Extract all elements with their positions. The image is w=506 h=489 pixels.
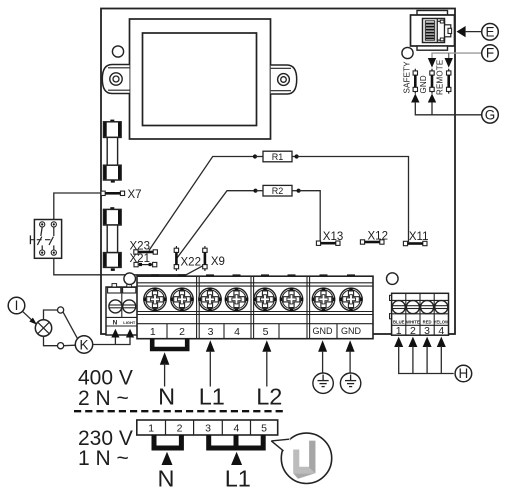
- mounting hole below RJ45: [402, 47, 413, 58]
- 230V terminal strip: [137, 420, 278, 435]
- arrow up to LIGHT terminal: [126, 329, 134, 338]
- wire: [292, 190, 299, 192]
- screw 3 red: [421, 301, 434, 314]
- svg-text:E: E: [485, 24, 494, 39]
- arrow down to REMOTE pin: [445, 58, 453, 68]
- svg-text:L1: L1: [199, 383, 225, 409]
- wire: [255, 156, 263, 158]
- wire: [292, 156, 297, 158]
- svg-text:F: F: [486, 46, 494, 61]
- arrow N 400V: [160, 352, 170, 365]
- wire lamp top to switch: [44, 310, 58, 320]
- svg-text:YELOW: YELOW: [434, 319, 449, 324]
- arrow to E: [457, 26, 466, 37]
- connector X21: [134, 262, 157, 266]
- connector X9: [203, 246, 207, 271]
- wire X7 to external box: [54, 193, 101, 220]
- svg-text:5: 5: [261, 423, 267, 435]
- svg-text:RED: RED: [423, 319, 432, 324]
- connector X11: [403, 241, 427, 245]
- arrow N 230V: [162, 452, 173, 465]
- mounting hole top-left: [112, 46, 123, 57]
- svg-text:SAFETY: SAFETY: [402, 61, 411, 94]
- svg-text:3: 3: [424, 325, 430, 337]
- svg-text:4: 4: [234, 326, 240, 338]
- connector X22: [174, 246, 178, 271]
- fuse F2: [104, 207, 122, 271]
- label H: [455, 365, 472, 382]
- svg-text:2: 2: [410, 325, 416, 337]
- connector X12: [360, 240, 384, 244]
- pin header GND: [430, 69, 434, 94]
- svg-text:1: 1: [150, 326, 156, 338]
- screw terminal 3: [198, 288, 221, 311]
- junction dot R2 left: [253, 189, 257, 193]
- connector X23: [134, 250, 158, 254]
- svg-text:2 N ~: 2 N ~: [78, 387, 129, 410]
- junction dot R2 right: [297, 189, 301, 193]
- left tab screw: [110, 73, 122, 85]
- arrows H group: [394, 337, 454, 374]
- label I: [8, 297, 25, 314]
- arrow L1 230V: [231, 452, 242, 465]
- pin header REMOTE: [447, 69, 451, 94]
- wire R2 right to X13: [299, 191, 321, 241]
- lamp symbol: [35, 320, 51, 336]
- svg-text:L1: L1: [225, 466, 251, 489]
- svg-text:WHITE: WHITE: [406, 319, 420, 324]
- svg-text:N: N: [158, 466, 175, 489]
- svg-text:1 N ~: 1 N ~: [78, 447, 129, 470]
- wire: [256, 190, 264, 192]
- label E: [482, 24, 499, 41]
- earth symbol 2: [340, 373, 360, 393]
- svg-text:I: I: [15, 298, 19, 313]
- arrow GND 2: [346, 340, 355, 352]
- svg-text:2: 2: [179, 326, 185, 338]
- screw terminal GND1: [312, 288, 335, 311]
- screw terminal 5: [253, 288, 276, 311]
- wire G: [415, 102, 481, 115]
- svg-text:GND: GND: [341, 326, 362, 336]
- svg-text:R1: R1: [272, 152, 284, 162]
- svg-text:4: 4: [438, 325, 444, 337]
- screw terminal 2: [170, 288, 193, 311]
- switch contact circle top: [58, 307, 64, 313]
- RJ45 remote connector U3: [411, 11, 455, 51]
- svg-text:N: N: [158, 383, 175, 409]
- main terminal block: [137, 274, 373, 338]
- terminal block N/LIGHT: [106, 284, 138, 335]
- wire: [64, 344, 76, 347]
- external contactor box: [30, 220, 61, 259]
- arrow GND 1: [318, 340, 327, 352]
- label G: [482, 107, 499, 124]
- earth symbol 1: [313, 373, 333, 393]
- board outline: [101, 9, 455, 335]
- svg-text:1: 1: [148, 423, 154, 435]
- arrow up from GND pin: [428, 94, 436, 103]
- screw 1 blue: [392, 301, 405, 314]
- label F: [482, 45, 499, 62]
- svg-text:GND: GND: [419, 75, 428, 93]
- right tab screw: [278, 74, 290, 86]
- resistor R1: [263, 151, 292, 162]
- wire R2 left to X22: [177, 191, 256, 258]
- display screen: [143, 33, 257, 126]
- pin header SAFETY: [413, 69, 417, 94]
- screw terminal 6: [280, 288, 303, 311]
- wire external box to X9: [54, 258, 203, 275]
- arrow down to GND pin: [428, 58, 436, 68]
- connector X13: [316, 241, 340, 245]
- label K: [75, 336, 92, 353]
- wire R1 right to X11: [297, 157, 409, 243]
- svg-text:X7: X7: [128, 189, 142, 201]
- svg-text:4: 4: [233, 423, 239, 435]
- svg-text:H: H: [459, 366, 469, 381]
- wire R1 left to X23: [149, 157, 255, 251]
- screw terminal 4: [225, 288, 248, 311]
- bridge bar terminals 1-2: [152, 339, 187, 349]
- svg-text:R2: R2: [272, 186, 284, 196]
- resistor R2: [263, 185, 292, 196]
- screw 2 white: [406, 301, 419, 314]
- left mounting tab: [102, 65, 129, 94]
- junction dot R1 left: [253, 154, 257, 158]
- svg-text:5: 5: [263, 326, 269, 338]
- arrow L1 400V: [206, 340, 215, 352]
- svg-text:GND: GND: [313, 326, 334, 336]
- svg-text:G: G: [485, 107, 496, 122]
- screw terminal 1: [143, 288, 166, 311]
- mounting hole bottom-left: [124, 273, 136, 285]
- fuse F1: [104, 120, 122, 183]
- switch contact circle bottom: [58, 343, 64, 349]
- svg-text:2: 2: [177, 423, 183, 435]
- svg-text:LIGHT: LIGHT: [123, 320, 136, 325]
- right terminal block (low voltage): [390, 293, 450, 337]
- svg-text:X23: X23: [130, 240, 150, 252]
- dashed separator: [74, 410, 284, 412]
- svg-text:BLUE: BLUE: [393, 319, 405, 324]
- logo speech bubble: [271, 433, 331, 483]
- svg-text:L2: L2: [256, 383, 282, 409]
- svg-text:3: 3: [205, 423, 211, 435]
- junction dot R1 right: [295, 154, 299, 158]
- screw terminal GND2: [339, 288, 362, 311]
- display module outer frame: [130, 19, 271, 139]
- wire F: [432, 53, 482, 58]
- bridge bar 230V terminals 1-2: [154, 435, 181, 448]
- arrow up to N terminal: [111, 329, 119, 338]
- svg-text:3: 3: [208, 326, 214, 338]
- screw 4 yellow: [435, 301, 448, 314]
- wire K to N/LIGHT terminals: [93, 337, 130, 344]
- arrow L2 400V: [262, 340, 271, 352]
- svg-text:1: 1: [396, 325, 402, 337]
- bridge bar 230V terminals 3-4-5: [209, 435, 264, 448]
- svg-text:REMOTE: REMOTE: [436, 60, 445, 95]
- svg-text:X9: X9: [211, 256, 225, 268]
- right mounting tab: [271, 65, 297, 94]
- svg-text:K: K: [79, 337, 88, 352]
- switch blade to K: [63, 312, 77, 339]
- svg-text:X22: X22: [181, 256, 201, 268]
- arrow up from SAFETY pin: [411, 94, 419, 103]
- wire lamp bottom: [44, 336, 58, 346]
- mounting hole bottom-right: [387, 273, 399, 285]
- connector X7: [101, 191, 125, 195]
- arrow I to lamp: [23, 311, 32, 320]
